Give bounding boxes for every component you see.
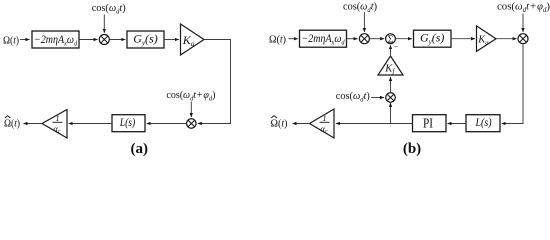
svg-text:cos(ωdt + φd): cos(ωdt + φd) bbox=[166, 89, 215, 103]
svg-text:−: − bbox=[394, 42, 399, 51]
svg-text:1: 1 bbox=[323, 114, 327, 123]
svg-text:Ω(t): Ω(t) bbox=[269, 34, 286, 46]
svg-text:cos(ωdt): cos(ωdt) bbox=[336, 90, 370, 104]
svg-text:L(s): L(s) bbox=[475, 115, 492, 129]
svg-text:Ω(t): Ω(t) bbox=[3, 34, 19, 46]
svg-text:Ω(t): Ω(t) bbox=[271, 117, 288, 129]
svg-text:Gy(s): Gy(s) bbox=[420, 31, 444, 47]
svg-text:cos(ωdt): cos(ωdt) bbox=[343, 1, 377, 15]
svg-text:cos(ωdt + φd): cos(ωdt + φd) bbox=[497, 1, 550, 15]
svg-text:−2mηAxωd: −2mηAxωd bbox=[302, 33, 345, 47]
svg-text:L(s): L(s) bbox=[119, 115, 135, 129]
svg-text:1: 1 bbox=[56, 114, 60, 123]
svg-text:Ω(t): Ω(t) bbox=[4, 117, 20, 129]
svg-text:Σ: Σ bbox=[388, 34, 394, 45]
svg-text:PI: PI bbox=[423, 116, 433, 131]
svg-text:−2mηAxωd: −2mηAxωd bbox=[34, 34, 77, 48]
svg-text:cos(ωdt): cos(ωdt) bbox=[92, 2, 126, 16]
svg-text:(b): (b) bbox=[403, 141, 421, 157]
svg-text:(a): (a) bbox=[131, 141, 149, 157]
svg-text:Gy(s): Gy(s) bbox=[133, 32, 157, 48]
